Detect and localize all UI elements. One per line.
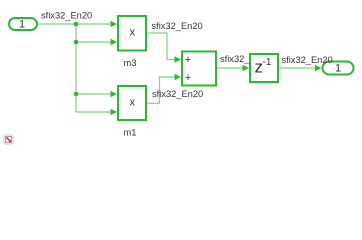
svg-text:1: 1 bbox=[335, 62, 341, 74]
svg-text:+: + bbox=[185, 54, 191, 66]
svg-text:sfix32_En20: sfix32_En20 bbox=[152, 21, 203, 31]
svg-text:x: x bbox=[130, 26, 136, 38]
svg-text:sfix32_: sfix32_ bbox=[220, 54, 250, 64]
svg-text:sfix32_En20: sfix32_En20 bbox=[41, 11, 92, 21]
svg-text:sfix32_En20: sfix32_En20 bbox=[282, 55, 333, 65]
svg-text:+: + bbox=[185, 72, 191, 84]
svg-text:1: 1 bbox=[19, 18, 25, 30]
svg-text:x: x bbox=[130, 96, 136, 108]
svg-text:m3: m3 bbox=[124, 58, 137, 68]
svg-text:m1: m1 bbox=[124, 127, 137, 137]
svg-text:-1: -1 bbox=[263, 57, 272, 68]
svg-text:sfix32_En20: sfix32_En20 bbox=[152, 89, 203, 99]
